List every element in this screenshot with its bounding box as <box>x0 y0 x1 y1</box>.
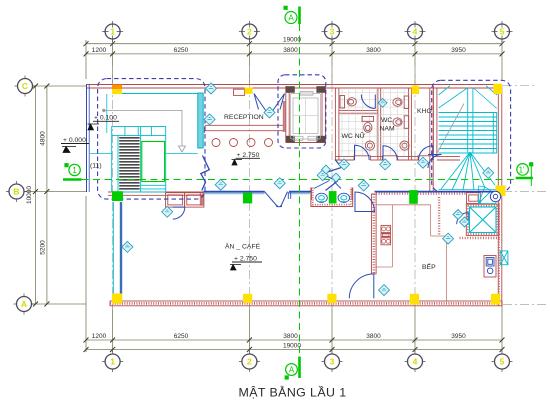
svg-text:B: B <box>13 187 19 197</box>
svg-text:1200: 1200 <box>92 47 107 54</box>
svg-text:5: 5 <box>500 27 505 37</box>
svg-text:2: 2 <box>247 357 252 367</box>
svg-text:3800: 3800 <box>283 333 298 340</box>
svg-text:WC: WC <box>381 117 392 124</box>
svg-text:3800: 3800 <box>366 47 381 54</box>
svg-text:3: 3 <box>330 357 335 367</box>
svg-text:+ 0.100: + 0.100 <box>94 115 117 122</box>
svg-text:1': 1' <box>519 165 525 174</box>
svg-text:3950: 3950 <box>451 47 466 54</box>
svg-text:1: 1 <box>110 27 115 37</box>
svg-text:19000: 19000 <box>283 37 301 44</box>
svg-text:4: 4 <box>413 27 418 37</box>
svg-text:1: 1 <box>72 166 77 175</box>
svg-text:19000: 19000 <box>283 343 301 350</box>
svg-text:NAM: NAM <box>380 126 395 133</box>
svg-text:4800: 4800 <box>40 131 47 146</box>
svg-text:1200: 1200 <box>92 333 107 340</box>
svg-text:A: A <box>288 14 294 23</box>
svg-text:2: 2 <box>247 27 252 37</box>
svg-text:C: C <box>22 81 28 91</box>
svg-text:MẬT BẰNG LẦU 1: MẬT BẰNG LẦU 1 <box>239 385 347 400</box>
svg-text:KHO: KHO <box>417 108 432 115</box>
svg-text:ĂN _ CAFÉ: ĂN _ CAFÉ <box>225 242 261 251</box>
svg-text:3: 3 <box>330 27 335 37</box>
svg-text:4: 4 <box>413 357 418 367</box>
svg-text:3800: 3800 <box>366 333 381 340</box>
svg-text:A: A <box>21 299 27 309</box>
svg-text:6250: 6250 <box>174 47 189 54</box>
svg-text:(11): (11) <box>90 163 102 170</box>
svg-text:A: A <box>289 366 295 375</box>
svg-text:BẾP: BẾP <box>422 261 436 271</box>
svg-text:5: 5 <box>500 357 505 367</box>
svg-text:+ 0.000: + 0.000 <box>63 137 86 144</box>
svg-text:5200: 5200 <box>40 240 47 255</box>
svg-text:6250: 6250 <box>174 333 189 340</box>
svg-text:3800: 3800 <box>283 47 298 54</box>
svg-text:10000: 10000 <box>26 186 33 204</box>
svg-text:+ 2.750: + 2.750 <box>234 256 257 263</box>
svg-text:WC NỮ: WC NỮ <box>342 131 366 140</box>
svg-text:3950: 3950 <box>451 333 466 340</box>
svg-text:RECEPTION: RECEPTION <box>224 114 264 121</box>
svg-text:1: 1 <box>110 357 115 367</box>
